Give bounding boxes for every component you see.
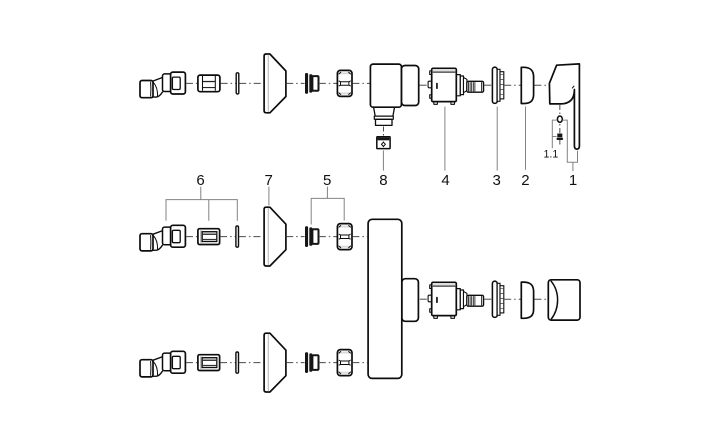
wire: centerline bottom g bbox=[420, 298, 428, 300]
escutcheon cone, top row bbox=[264, 54, 286, 113]
wire: centerline top h bbox=[484, 84, 492, 86]
dome cap part 2, top row bbox=[521, 67, 533, 103]
wire: centerline row2 c bbox=[239, 362, 264, 364]
cartridge part 4, top row bbox=[428, 68, 484, 104]
svg-text:1.1: 1.1 bbox=[544, 149, 559, 161]
wire: centerline top a bbox=[186, 82, 197, 84]
wire: centerline row2 b bbox=[220, 362, 235, 364]
square knob handle, bottom assembly bbox=[548, 280, 580, 320]
adapter nipple (part of 5), row 2 bbox=[305, 352, 319, 373]
wire: centerline row1 f bbox=[352, 236, 367, 238]
leader line and bracket for label 6 bbox=[166, 187, 237, 221]
escutcheon cone part 7, row 1 bbox=[264, 207, 286, 266]
wire: centerline top d bbox=[286, 82, 304, 84]
wire: vertical centerline body to mousseur bbox=[383, 127, 385, 137]
union nut (part of 5), row 1 bbox=[337, 224, 352, 250]
wire: centerline row2 f bbox=[352, 362, 367, 364]
disc stack part 3, top row bbox=[492, 67, 503, 103]
wire: handle screw centerline bbox=[559, 105, 561, 146]
bracket lines for labels 1 and 1.1 bbox=[552, 120, 577, 171]
wire: centerline bottom h bbox=[484, 298, 492, 300]
wire: centerline top j bbox=[534, 84, 549, 86]
wire: centerline top f bbox=[352, 82, 370, 84]
wire: centerline top i bbox=[504, 84, 520, 86]
washer, row 2 bbox=[236, 352, 239, 373]
wire: centerline row1 d bbox=[286, 236, 304, 238]
wire: centerline row2 d bbox=[286, 362, 304, 364]
svg-text:2: 2 bbox=[521, 172, 529, 189]
faucet body, top assembly bbox=[370, 64, 418, 125]
washer, row 1 bbox=[236, 226, 239, 247]
faucet body, bottom assembly bbox=[368, 219, 418, 378]
bushing/check valve, top row bbox=[198, 75, 220, 92]
wire: centerline top c bbox=[239, 82, 263, 84]
filter insert (part of 6), row 1 bbox=[198, 229, 220, 245]
grub screw part 1.1 bbox=[557, 134, 564, 141]
cartridge, bottom assembly bbox=[428, 282, 484, 318]
disc stack, bottom assembly bbox=[492, 281, 503, 317]
svg-text:7: 7 bbox=[265, 172, 273, 189]
svg-text:3: 3 bbox=[493, 172, 501, 189]
dome cap, bottom assembly bbox=[521, 282, 533, 318]
leader line for label 7 bbox=[268, 187, 270, 206]
washer, top row bbox=[236, 73, 239, 94]
leader line for label 3 bbox=[496, 107, 498, 171]
wire: centerline bottom i bbox=[504, 298, 520, 300]
wire: centerline row1 a bbox=[186, 236, 197, 238]
leader line and bracket for label 5 bbox=[311, 187, 344, 225]
wire: centerline row2 a bbox=[186, 362, 197, 364]
S-union fitting, bottom row 1 bbox=[140, 225, 185, 251]
o-ring under handle bbox=[557, 116, 562, 122]
wire: centerline row1 e bbox=[319, 236, 337, 238]
leader line for label 4 bbox=[444, 107, 446, 171]
S-union fitting, top row bbox=[140, 72, 185, 98]
leader line for label 2 bbox=[525, 107, 527, 170]
wire: centerline top g bbox=[420, 84, 428, 86]
escutcheon cone part 7, row 2 bbox=[264, 333, 286, 392]
filter insert (part of 6), row 2 bbox=[198, 355, 220, 371]
wire: centerline row2 e bbox=[319, 362, 337, 364]
svg-text:1: 1 bbox=[569, 172, 577, 189]
adapter nipple (part of 5), row 1 bbox=[305, 226, 319, 247]
leader line for label 8 bbox=[382, 150, 384, 170]
svg-text:8: 8 bbox=[379, 172, 387, 189]
wire: centerline row1 c bbox=[239, 236, 264, 238]
wire: centerline top b bbox=[221, 82, 236, 84]
lever handle part 1 bbox=[549, 64, 579, 149]
mousseur part 8 bbox=[377, 137, 390, 149]
union nut (part of 5), row 2 bbox=[337, 350, 352, 376]
adapter nipple, top row bbox=[305, 73, 319, 94]
svg-text:4: 4 bbox=[441, 172, 449, 189]
svg-text:6: 6 bbox=[196, 172, 204, 189]
S-union fitting, bottom row 2 bbox=[140, 351, 185, 377]
wire: centerline row1 b bbox=[220, 236, 235, 238]
svg-text:5: 5 bbox=[323, 172, 331, 189]
wire: centerline top e bbox=[319, 82, 337, 84]
wire: centerline bottom j bbox=[534, 298, 548, 300]
union nut, top row bbox=[337, 70, 352, 96]
